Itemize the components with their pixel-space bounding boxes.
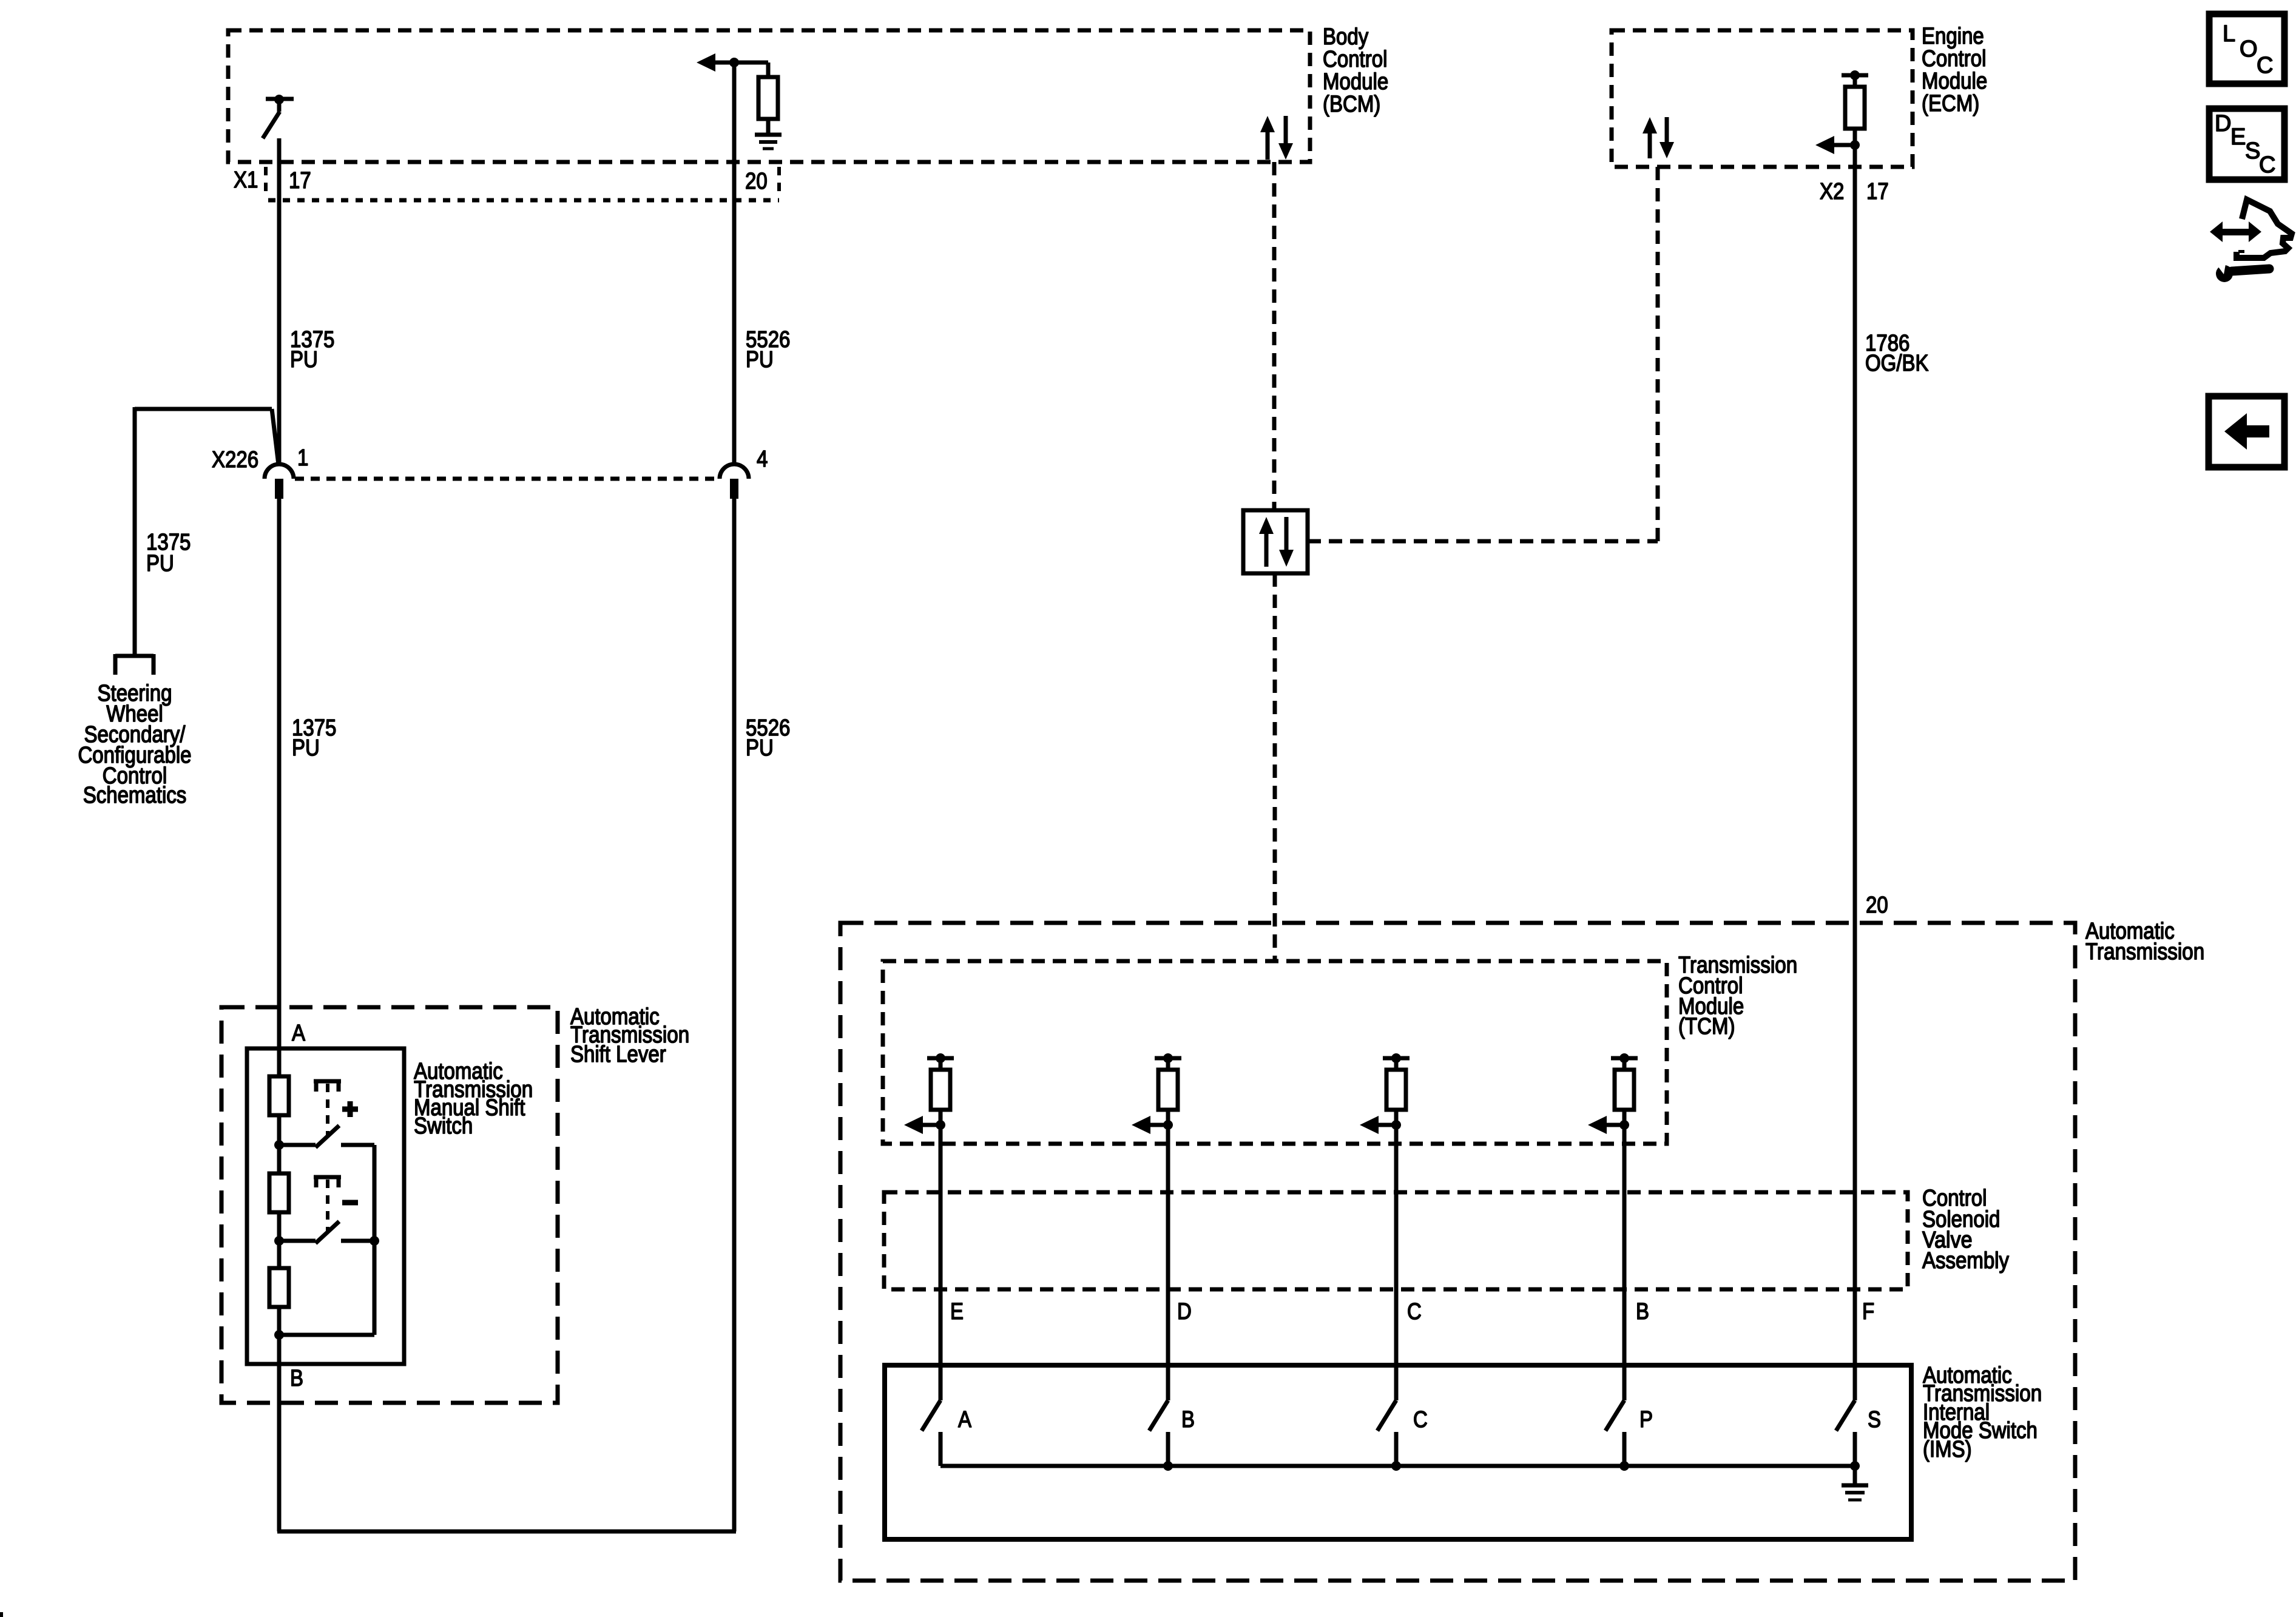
svg-text:S: S: [2245, 138, 2260, 164]
BCM label: [1323, 24, 1388, 117]
TCM driver C: top bar: [1383, 1053, 1410, 1070]
junction node on BCM wire: [729, 58, 739, 67]
DESC icon box: [2209, 109, 2284, 180]
Body Control Module (BCM) box: [228, 30, 1310, 162]
junction node C: [1391, 1110, 1401, 1130]
Automatic Transmission outer box: [840, 923, 2075, 1581]
wire 5526 PU from BCM pin 20: [732, 62, 737, 465]
TCM driver E: top bar: [927, 1053, 954, 1070]
svg-text:4: 4: [757, 447, 768, 472]
wiring repair icon: wrench: [2215, 261, 2269, 282]
junction node bus B: [1163, 1461, 1173, 1471]
branch wire to steering wheel schematics: [135, 407, 279, 656]
wiring repair icon: double arrow: [2210, 221, 2261, 242]
svg-text:B: B: [1181, 1407, 1195, 1433]
IMS switch B: [1149, 1400, 1168, 1466]
svg-text:C: C: [1413, 1407, 1428, 1433]
switch inside BCM (ignition feed): [263, 95, 294, 138]
svg-text:Assembly: Assembly: [1922, 1248, 2009, 1274]
svg-text:OG/BK: OG/BK: [1865, 351, 1929, 376]
tap switch - fixed contact: [314, 1177, 341, 1233]
ECM internal signal arrow: [1815, 136, 1855, 154]
Automatic Transmission label: [2085, 919, 2204, 965]
resistor R1 (shift switch): [269, 1076, 289, 1115]
BCM up/down serial data arrows: [1260, 116, 1293, 160]
label 1375 PU (branch): [146, 530, 191, 576]
svg-text:O: O: [2240, 36, 2258, 62]
wire - contact to bus: [341, 1239, 374, 1243]
LOC icon box: [2209, 14, 2284, 84]
svg-text:Engine: Engine: [1922, 24, 1984, 49]
svg-text:B: B: [290, 1366, 303, 1391]
IMS common bus wire: [940, 1464, 1855, 1468]
serial data gateway box: [1243, 510, 1308, 573]
junction node bus C: [1391, 1461, 1401, 1471]
junction node B: [1619, 1110, 1629, 1130]
svg-text:Transmission: Transmission: [2085, 939, 2204, 965]
svg-text:PU: PU: [290, 347, 318, 373]
junction node 2 (tap -): [274, 1236, 284, 1246]
IMS switch C: [1377, 1400, 1396, 1466]
svg-text:Module: Module: [1323, 69, 1388, 95]
ground (IMS): [1842, 1466, 1868, 1500]
off-page connector (steering wheel): [115, 654, 154, 675]
junction node 3 (bottom tap): [274, 1330, 284, 1340]
wire 1375 PU from BCM pin 17: [277, 138, 282, 465]
junction node 1 (tap +): [274, 1140, 284, 1150]
junction node bus -: [370, 1236, 379, 1246]
svg-text:A: A: [292, 1021, 306, 1046]
svg-text:20: 20: [745, 169, 768, 194]
label 1786 OG/BK: [1865, 331, 1929, 376]
svg-text:A: A: [958, 1407, 972, 1433]
label 1375 PU (lower): [292, 715, 336, 761]
svg-text:S: S: [1868, 1407, 1881, 1433]
TCM driver D: top bar: [1155, 1053, 1181, 1070]
svg-text:D: D: [1177, 1299, 1192, 1325]
resistor R-ECM: [1845, 87, 1865, 129]
svg-text:Schematics: Schematics: [83, 783, 187, 808]
junction node bus S: [1850, 1461, 1860, 1471]
label 5526 PU (upper): [746, 327, 790, 373]
wire from arrow to resistor: [714, 61, 768, 65]
svg-text:C: C: [2257, 53, 2273, 78]
resistor R-BCM: [758, 77, 778, 119]
svg-text:E: E: [950, 1299, 964, 1325]
wire B to IMS: [1622, 1125, 1627, 1400]
junction node D: [1163, 1110, 1173, 1130]
wire C to IMS: [1394, 1125, 1399, 1400]
IMS switch P: [1606, 1400, 1624, 1466]
wire corner down to resistor R-BCM: [766, 62, 771, 77]
svg-text:L: L: [2223, 21, 2235, 47]
X1 connector band bottom edge: [268, 198, 779, 203]
svg-text:20: 20: [1866, 893, 1888, 918]
X1 band left separator: [264, 167, 268, 197]
svg-text:D: D: [2215, 111, 2231, 137]
switch internal bus: [279, 1145, 374, 1335]
X226 cavity 4: [720, 464, 749, 499]
Manual Shift Switch label: [414, 1059, 533, 1139]
IMS switch A: [922, 1400, 940, 1466]
svg-text:17: 17: [289, 168, 311, 194]
svg-text:Control: Control: [1922, 46, 1986, 72]
resistor R-D: [1158, 1070, 1178, 1110]
bottom connecting wire: [277, 1530, 736, 1534]
label 5526 PU (lower): [746, 715, 790, 761]
back arrow icon box: [2209, 396, 2284, 467]
wire E to IMS: [939, 1125, 943, 1400]
wire resistor to ground: [766, 119, 771, 135]
svg-text:X226: X226: [212, 447, 258, 473]
Engine Control Module (ECM) box: [1612, 30, 1913, 167]
resistor R2 (shift switch): [269, 1173, 289, 1212]
dashed serial data wire BCM down: [1272, 162, 1277, 510]
svg-text:Shift Lever: Shift Lever: [570, 1042, 666, 1067]
resistor R-C: [1386, 1070, 1406, 1110]
junction node E: [936, 1110, 945, 1130]
svg-text:Control: Control: [1323, 47, 1387, 72]
dashed serial data wire gateway to ECM: [1308, 167, 1658, 541]
svg-text:PU: PU: [292, 735, 320, 761]
resistor R-B: [1615, 1070, 1634, 1110]
BCM internal resistor arrow (signal to BCM): [697, 53, 715, 72]
label 1375 PU (upper): [290, 327, 334, 373]
Transmission Control Module (TCM) box: [883, 961, 1667, 1144]
resistor R-E: [931, 1070, 950, 1110]
ECM label: [1922, 24, 1987, 116]
svg-text:C: C: [1407, 1299, 1422, 1325]
svg-text:X1: X1: [234, 167, 258, 193]
IMS switch S: [1836, 1400, 1855, 1466]
Control Solenoid Valve Assembly box: [884, 1192, 1908, 1289]
svg-text:Module: Module: [1922, 69, 1987, 94]
Control Solenoid Valve Assembly label: [1922, 1186, 2009, 1274]
junction node (ECM): [1850, 140, 1860, 150]
svg-text:(ECM): (ECM): [1922, 91, 1979, 116]
Automatic Transmission Shift Lever box: [221, 1007, 558, 1403]
svg-text:17: 17: [1866, 179, 1889, 204]
tap switch + : stub and blade: [279, 1126, 339, 1147]
TCM label: [1678, 953, 1797, 1039]
page mark: [0, 1612, 3, 1617]
X226 harness dashed line: [295, 477, 720, 481]
svg-text:1: 1: [297, 445, 308, 471]
plus sign: [342, 1101, 358, 1117]
svg-text:PU: PU: [146, 551, 174, 576]
X226 cavity 1: [265, 464, 294, 499]
wire 1375 PU lower: [277, 499, 282, 1531]
wiring repair icon: connector outline: [2237, 200, 2292, 258]
IMS label: [1923, 1363, 2042, 1462]
ground (BCM): [755, 135, 782, 149]
svg-text:F: F: [1862, 1299, 1874, 1325]
wire resistor to junction: [1853, 129, 1857, 145]
TCM signal arrow E: [904, 1116, 940, 1134]
steering wheel schematics note: [78, 681, 191, 808]
tap switch + fixed contact: [314, 1081, 341, 1137]
minus sign: [342, 1200, 358, 1206]
TCM driver B: top bar: [1611, 1053, 1638, 1070]
svg-text:PU: PU: [746, 347, 774, 373]
svg-text:B: B: [1636, 1299, 1649, 1325]
svg-text:Body: Body: [1323, 24, 1368, 50]
wire D to IMS: [1166, 1125, 1170, 1400]
svg-text:C: C: [2259, 152, 2275, 178]
svg-text:(TCM): (TCM): [1678, 1014, 1735, 1039]
TCM signal arrow B: [1588, 1116, 1624, 1134]
wire + contact to bus: [341, 1143, 374, 1147]
ECM up/down serial data arrows: [1643, 117, 1674, 158]
resistor R3 (shift switch): [269, 1268, 289, 1307]
TCM signal arrow C: [1360, 1116, 1396, 1134]
gateway up/down arrows: [1259, 517, 1294, 567]
Manual Shift Switch box: [247, 1048, 404, 1364]
svg-text:Switch: Switch: [414, 1113, 473, 1139]
svg-text:(BCM): (BCM): [1323, 92, 1380, 117]
svg-text:P: P: [1639, 1407, 1653, 1433]
tap switch - : stub and blade: [279, 1221, 339, 1243]
svg-text:X2: X2: [1820, 179, 1844, 204]
wire 1786 OG/BK: [1853, 145, 1857, 1400]
dashed serial data wire gateway to TCM: [1273, 573, 1277, 961]
svg-text:PU: PU: [746, 735, 774, 761]
svg-text:E: E: [2230, 124, 2246, 150]
X1 band right separator: [777, 167, 781, 197]
wire 5526 PU lower: [732, 499, 737, 1531]
Shift Lever label: [570, 1004, 689, 1067]
TCM signal arrow D: [1132, 1116, 1168, 1134]
junction node bus P: [1619, 1461, 1629, 1471]
svg-text:(IMS): (IMS): [1923, 1437, 1972, 1462]
ECM pull-up resistor top bar: [1842, 70, 1868, 87]
Automatic Transmission IMS box: [885, 1365, 1911, 1539]
